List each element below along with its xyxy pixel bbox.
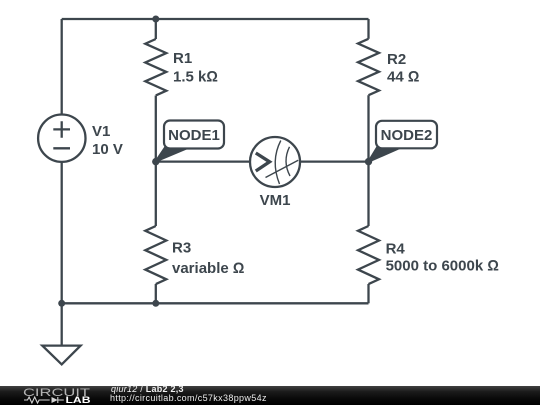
wire R1 branch (155, 19, 157, 39)
CircuitLab logo (22, 385, 102, 405)
svg-text:44 Ω: 44 Ω (387, 69, 419, 86)
wire R3 to bottom (155, 284, 157, 303)
V1 minus sign (53, 147, 70, 149)
node NODE2 callout box (376, 121, 437, 149)
svg-text:R4: R4 (386, 241, 406, 258)
svg-text:VM1: VM1 (260, 192, 291, 209)
svg-text:LAB: LAB (66, 395, 91, 405)
svg-text:R1: R1 (173, 50, 192, 67)
junction dot bottom R3 (152, 300, 159, 307)
wire R3 branch (155, 162, 157, 226)
footer title (111, 385, 184, 395)
resistor R3 (145, 226, 166, 284)
junction dot node1 (152, 158, 159, 165)
svg-text:NODE1: NODE1 (168, 127, 220, 144)
resistor R2 (358, 39, 379, 95)
wire R1 to NODE1 (155, 96, 157, 162)
svg-text:1.5 kΩ: 1.5 kΩ (173, 69, 218, 86)
junction dot node2 (365, 158, 372, 165)
wire ground stub (61, 303, 63, 345)
wire bottom horizontal (62, 302, 369, 304)
junction dot bottom left (58, 300, 65, 307)
wire R4 branch (367, 162, 369, 226)
svg-text:variable Ω: variable Ω (172, 260, 244, 277)
ground (42, 346, 80, 365)
node NODE1 callout tail (156, 148, 190, 162)
junction dot top R1 (152, 16, 159, 23)
wire top horizontal (62, 18, 369, 20)
svg-text:V1: V1 (92, 123, 110, 140)
node NODE1 callout box (164, 121, 224, 149)
svg-text:10 V: 10 V (92, 141, 123, 158)
wire R2 branch (367, 19, 369, 39)
wire middle horizontal (156, 160, 369, 162)
resistor R1 (145, 39, 166, 95)
wire R4 to bottom (367, 284, 369, 303)
VM1 meter arcs and needle (266, 141, 299, 185)
svg-text:R3: R3 (172, 240, 191, 257)
voltmeter VM1 circle (250, 137, 300, 187)
svg-text:5000 to 6000k Ω: 5000 to 6000k Ω (386, 258, 499, 275)
footer url (110, 394, 267, 404)
V1 plus sign (53, 121, 70, 138)
node NODE2 callout tail (368, 148, 401, 162)
footer bar (0, 386, 540, 405)
resistor R4 (358, 226, 379, 284)
VM1 greater-than symbol (256, 153, 270, 171)
wire R2 to NODE2 (367, 95, 369, 161)
svg-text:R2: R2 (387, 51, 406, 68)
voltage source V1 circle (38, 115, 85, 162)
wire left vertical (61, 19, 63, 304)
svg-text:NODE2: NODE2 (381, 127, 433, 144)
